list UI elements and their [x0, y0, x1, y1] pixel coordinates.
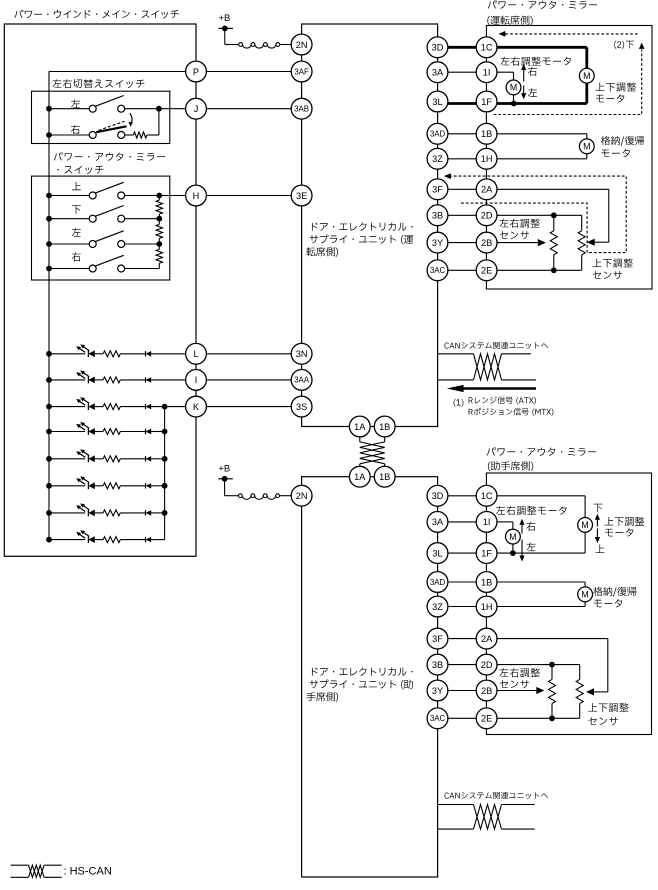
svg-text:1B: 1B: [481, 577, 492, 587]
svg-text:1A: 1A: [354, 422, 366, 432]
svg-text:2D: 2D: [481, 211, 493, 221]
svg-text:3AC: 3AC: [430, 266, 446, 275]
svg-text:1F: 1F: [481, 97, 492, 107]
svg-text:3L: 3L: [432, 548, 442, 558]
svg-text:H: H: [193, 191, 200, 201]
svg-text:1B: 1B: [481, 129, 492, 139]
svg-text:3AD: 3AD: [430, 130, 446, 139]
svg-text:2E: 2E: [481, 266, 492, 276]
svg-text:+B: +B: [218, 463, 230, 474]
svg-text:J: J: [194, 104, 199, 114]
svg-text:1H: 1H: [481, 154, 493, 164]
svg-text:2B: 2B: [481, 686, 492, 696]
svg-text:3Y: 3Y: [432, 686, 443, 696]
svg-text:3Y: 3Y: [432, 238, 443, 248]
svg-text:3B: 3B: [432, 660, 443, 670]
svg-text:1C: 1C: [481, 43, 493, 53]
svg-text:2N: 2N: [296, 40, 308, 50]
svg-text:M: M: [583, 142, 590, 152]
svg-text:1C: 1C: [481, 491, 493, 501]
svg-text:L: L: [193, 349, 198, 359]
svg-text:1B: 1B: [379, 472, 390, 482]
svg-text:M: M: [509, 532, 516, 542]
svg-text:3E: 3E: [296, 191, 307, 201]
svg-text:2E: 2E: [481, 714, 492, 724]
svg-text:3AF: 3AF: [294, 67, 309, 76]
svg-text:3Z: 3Z: [432, 602, 443, 612]
svg-text:P: P: [193, 67, 199, 77]
svg-text:3D: 3D: [432, 43, 444, 53]
svg-text:1I: 1I: [483, 67, 491, 77]
svg-text:3AB: 3AB: [294, 105, 309, 114]
svg-text:M: M: [583, 71, 590, 81]
svg-text:1H: 1H: [481, 602, 493, 612]
svg-text:M: M: [581, 520, 588, 530]
svg-text:I: I: [195, 375, 198, 385]
svg-text:2D: 2D: [481, 660, 493, 670]
svg-text:1I: 1I: [483, 517, 491, 527]
svg-text:K: K: [193, 402, 200, 412]
svg-text:+B: +B: [219, 13, 231, 24]
svg-text:1B: 1B: [379, 422, 390, 432]
svg-text:M: M: [510, 83, 517, 93]
svg-text:3Z: 3Z: [432, 154, 443, 164]
svg-text:3B: 3B: [432, 211, 443, 221]
svg-text:1F: 1F: [481, 548, 492, 558]
svg-text:2B: 2B: [481, 238, 492, 248]
svg-text:3S: 3S: [296, 402, 307, 412]
svg-text:M: M: [581, 590, 588, 600]
svg-text:3AD: 3AD: [430, 578, 446, 587]
svg-text:3N: 3N: [296, 349, 308, 359]
svg-text:3F: 3F: [432, 185, 443, 195]
svg-text:2A: 2A: [481, 185, 493, 195]
svg-text:3AA: 3AA: [294, 376, 310, 385]
svg-text:1A: 1A: [354, 472, 366, 482]
svg-text:3L: 3L: [432, 97, 442, 107]
svg-text:3A: 3A: [432, 67, 444, 77]
svg-text:: HS-CAN: : HS-CAN: [64, 866, 112, 878]
svg-text:3D: 3D: [432, 491, 444, 501]
svg-text:2N: 2N: [296, 491, 308, 501]
svg-text:3A: 3A: [432, 517, 444, 527]
svg-text:2A: 2A: [481, 634, 493, 644]
svg-text:3F: 3F: [432, 634, 443, 644]
svg-text:3AC: 3AC: [430, 714, 446, 723]
